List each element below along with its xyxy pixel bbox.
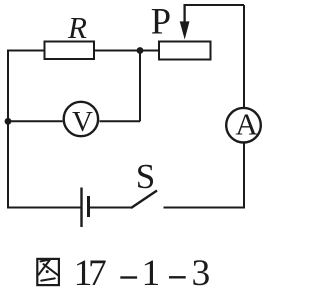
caption hanzi tu (图) drawn: [37, 259, 59, 285]
node junction left: [5, 118, 12, 125]
wire voltmeter branch left: [8, 120, 63, 122]
wire voltmeter branch right: [100, 120, 141, 122]
caption dash 2: [169, 276, 186, 278]
resistor R: [45, 42, 95, 60]
rheostat P body: [159, 42, 211, 60]
battery cell short plate: [87, 196, 90, 217]
wire right rail upper: [243, 5, 245, 107]
svg-text:1: 1: [142, 253, 161, 291]
caption dash 1: [120, 276, 137, 278]
svg-text:7: 7: [88, 253, 107, 291]
wire right rail lower: [243, 144, 245, 209]
switch S blade: [131, 191, 157, 209]
battery cell long plate: [80, 188, 82, 228]
wire bottom right segment: [164, 207, 246, 209]
svg-text:V: V: [72, 106, 93, 138]
wire bottom left-middle segment: [90, 207, 132, 209]
svg-text:P: P: [151, 1, 171, 42]
wire bottom left segment: [7, 207, 81, 209]
voltmeter V1: [64, 102, 98, 136]
svg-text:R: R: [67, 10, 87, 45]
svg-text:A: A: [235, 107, 258, 142]
svg-text:S: S: [136, 157, 155, 196]
ammeter A1: [226, 108, 261, 143]
wire mid vertical: [139, 51, 141, 122]
wire top right: [185, 4, 244, 6]
wire resistor to junction to rheostat: [94, 50, 159, 52]
wire left rail: [7, 51, 9, 208]
wire top left segment: [7, 50, 45, 52]
svg-text:3: 3: [192, 253, 211, 291]
rheostat P wiper arrow: [183, 4, 185, 23]
node junction top: [137, 47, 144, 54]
